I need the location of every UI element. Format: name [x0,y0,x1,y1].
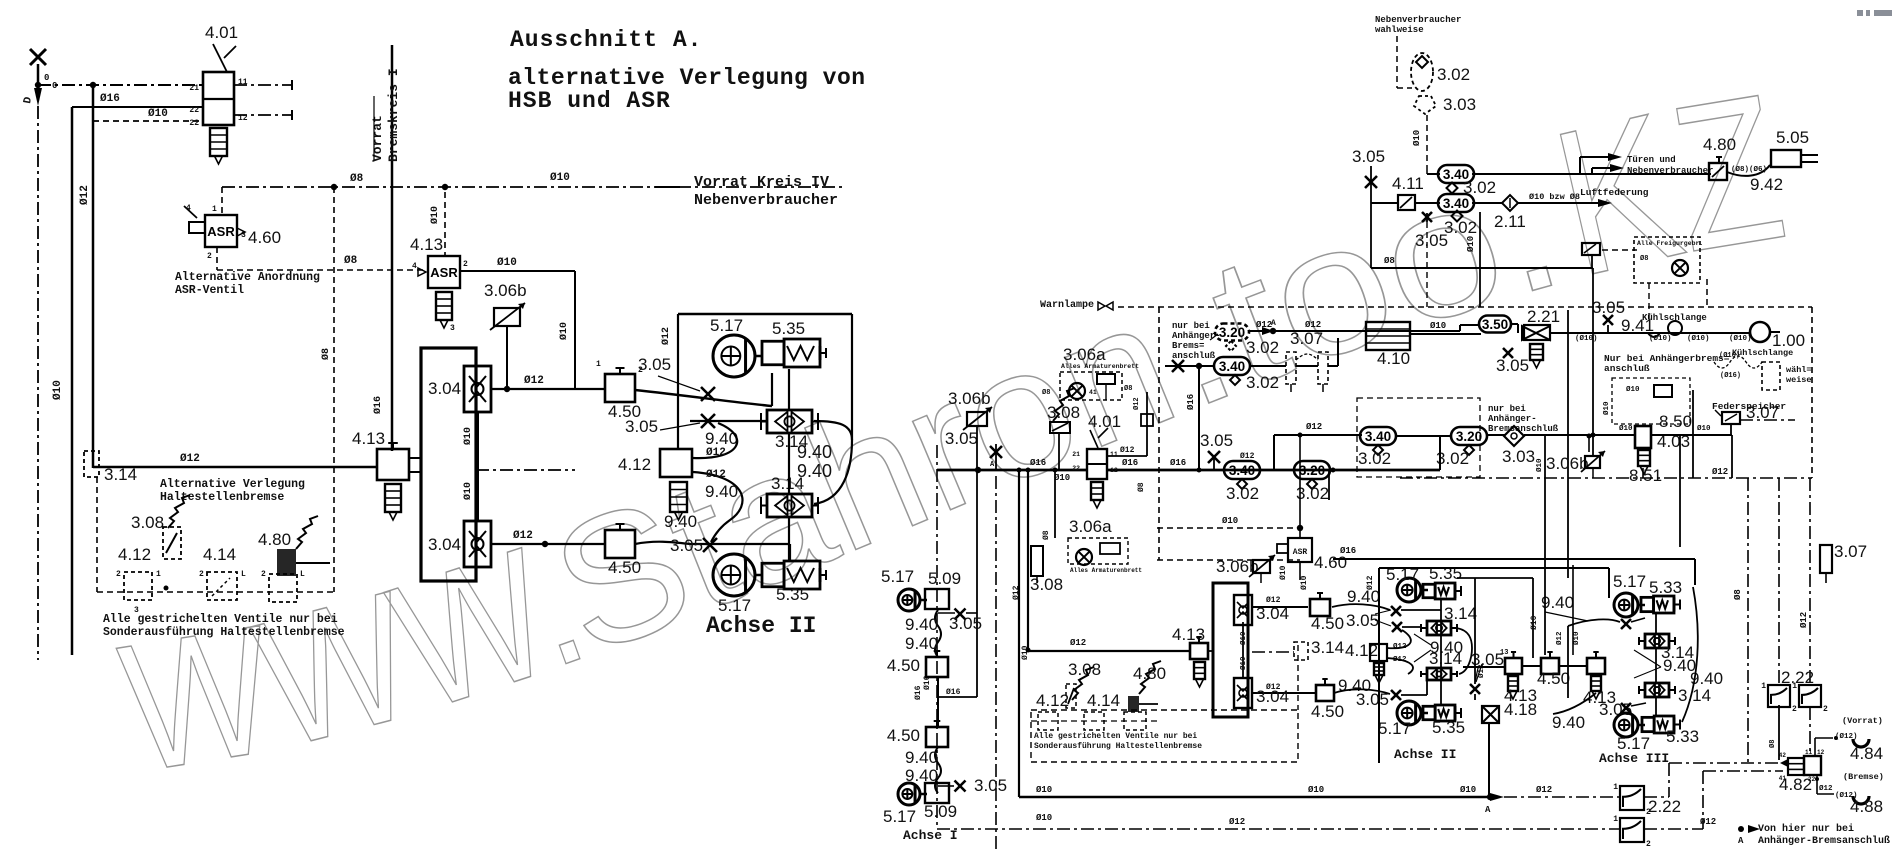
svg-text:4.13: 4.13 [410,235,443,254]
svg-text:ASR-Ventil: ASR-Ventil [175,284,244,297]
svg-text:Bremskreis I: Bremskreis I [386,68,401,162]
svg-text:3.07: 3.07 [1290,329,1323,348]
svg-text:Ø12: Ø12 [1366,575,1375,590]
svg-text:Ø10: Ø10 [497,257,517,269]
svg-text:Haltestellenbremse: Haltestellenbremse [160,491,284,504]
svg-text:Warnlampe: Warnlampe [1040,299,1094,311]
svg-text:Ø12: Ø12 [513,530,533,542]
svg-text:5.17: 5.17 [883,807,916,826]
svg-text:Alle gestrichelten Ventile nur: Alle gestrichelten Ventile nur bei [1034,732,1197,741]
svg-text:4.50: 4.50 [887,656,920,675]
svg-text:Anhänger-: Anhänger- [1172,331,1221,341]
svg-text:3.05: 3.05 [974,776,1007,795]
svg-text:3.20: 3.20 [1456,429,1482,444]
svg-text:4.80: 4.80 [258,530,291,549]
svg-text:4.50: 4.50 [887,726,920,745]
svg-text:Ø8: Ø8 [320,348,332,360]
svg-text:Ø12: Ø12 [180,453,200,465]
svg-text:13: 13 [1500,649,1508,657]
svg-text:3.06a: 3.06a [1069,517,1112,536]
svg-text:9.40: 9.40 [905,634,938,653]
svg-text:41: 41 [1779,775,1787,782]
svg-text:4.80: 4.80 [1133,664,1166,683]
svg-text:L: L [241,570,246,579]
svg-text:Ø8: Ø8 [1733,589,1743,600]
svg-text:5.33: 5.33 [1649,578,1682,597]
svg-text:3.05: 3.05 [1415,231,1448,250]
svg-text:22: 22 [189,106,199,115]
svg-text:9.40: 9.40 [705,482,738,501]
svg-text:9.42: 9.42 [1750,175,1783,194]
svg-text:5.17: 5.17 [881,567,914,586]
svg-text:4.50: 4.50 [608,558,641,577]
svg-text:2: 2 [1646,840,1651,849]
svg-text:5.17: 5.17 [1613,572,1646,591]
svg-text:1: 1 [156,570,161,579]
svg-text:2: 2 [199,570,204,579]
svg-text:A: A [1738,836,1744,846]
svg-text:1: 1 [1613,815,1618,824]
svg-text:Ø16: Ø16 [914,685,923,700]
svg-text:3.40: 3.40 [1229,463,1255,478]
svg-text:Achse III: Achse III [1599,751,1669,766]
svg-text:Ø10: Ø10 [462,427,474,445]
svg-text:3: 3 [450,324,455,333]
svg-text:4.50: 4.50 [1311,702,1344,721]
svg-text:2.11: 2.11 [1494,212,1526,231]
svg-text:Ø8: Ø8 [344,255,358,267]
svg-text:Ø12: Ø12 [1266,596,1281,605]
svg-text:Ø16: Ø16 [1030,458,1046,468]
svg-text:Ø10: Ø10 [1412,130,1422,146]
svg-text:ASR: ASR [1293,548,1308,557]
svg-text:4.11: 4.11 [1392,174,1424,193]
svg-text:3.14: 3.14 [1678,686,1711,705]
svg-text:Ø10: Ø10 [1308,785,1324,795]
svg-text:9.40: 9.40 [1552,713,1585,732]
svg-text:3.06a: 3.06a [1063,345,1106,364]
svg-text:Ø10: Ø10 [1036,813,1052,823]
svg-text:9.40: 9.40 [797,442,832,462]
svg-text:8.50: 8.50 [1659,412,1692,431]
svg-text:Achse II: Achse II [706,613,816,639]
svg-text:Alternative Anordnung: Alternative Anordnung [175,271,320,284]
svg-text:(Bremse): (Bremse) [1843,772,1884,782]
svg-text:Ø10: Ø10 [1430,321,1446,331]
svg-text:Ø12: Ø12 [1070,638,1086,648]
svg-text:Ø10: Ø10 [52,380,64,400]
svg-text:3.02: 3.02 [1437,65,1470,84]
svg-text:5.35: 5.35 [776,585,809,604]
svg-text:2: 2 [1823,705,1828,714]
svg-text:3.05: 3.05 [1496,356,1529,375]
svg-text:Achse II: Achse II [1394,747,1456,762]
svg-text:L: L [300,570,305,579]
svg-text:4.01: 4.01 [1088,412,1121,431]
svg-text:(Ø10): (Ø10) [1729,334,1752,343]
svg-text:3.03: 3.03 [1443,95,1476,114]
svg-text:3.05: 3.05 [949,614,982,633]
svg-text:Ø10: Ø10 [148,108,168,120]
svg-text:5.35: 5.35 [1432,718,1465,737]
svg-text:Ø8: Ø8 [1042,530,1051,540]
svg-text:4: 4 [186,204,191,213]
svg-text:A: A [1271,319,1276,328]
svg-text:3.04: 3.04 [1256,687,1289,706]
svg-text:11: 11 [1805,749,1813,756]
svg-text:Ø10: Ø10 [1530,615,1539,630]
svg-text:Ø16: Ø16 [946,688,961,697]
svg-text:4.14: 4.14 [1087,691,1120,710]
svg-text:Ø12: Ø12 [1799,612,1809,628]
svg-text:Ø16: Ø16 [100,93,120,105]
svg-text:4.60: 4.60 [248,228,281,247]
svg-text:Achse I: Achse I [903,828,958,843]
svg-text:3.14: 3.14 [1444,604,1477,623]
svg-text:Ø10: Ø10 [1239,631,1248,645]
svg-text:4.80: 4.80 [1703,135,1736,154]
svg-text:Ø8: Ø8 [1042,388,1050,397]
svg-text:9.40: 9.40 [1347,587,1380,606]
svg-text:Ø8: Ø8 [350,173,364,185]
svg-text:Ø16: Ø16 [1186,394,1196,410]
svg-text:12: 12 [1817,749,1825,756]
svg-text:Ø12: Ø12 [1536,785,1552,795]
svg-text:3.02: 3.02 [1296,484,1329,503]
svg-text:Anhänger-Bremsanschluß: Anhänger-Bremsanschluß [1758,835,1890,847]
svg-text:(Ø8)(Ø6): (Ø8)(Ø6) [1731,165,1767,174]
svg-text:3.08: 3.08 [131,513,164,532]
svg-text:1: 1 [596,360,601,369]
svg-text:Ø12: Ø12 [1712,467,1728,477]
svg-text:1: 1 [1613,783,1618,792]
svg-text:3.40: 3.40 [1219,359,1245,374]
svg-text:9.40: 9.40 [1541,593,1574,612]
svg-text:anschluß: anschluß [1604,363,1650,374]
svg-text:ASR: ASR [430,265,458,280]
svg-text:Vorrat Kreis IV: Vorrat Kreis IV [694,174,829,191]
svg-text:3.14: 3.14 [1311,638,1344,657]
svg-text:Kühlschlange: Kühlschlange [1732,348,1793,358]
svg-text:2.21: 2.21 [1527,307,1560,326]
svg-text:4.13: 4.13 [1172,625,1205,644]
svg-text:Alle gestrichelten Ventile nur: Alle gestrichelten Ventile nur bei [103,613,338,626]
svg-text:Nebenverbraucher: Nebenverbraucher [1375,15,1461,25]
svg-text:3.05: 3.05 [1200,431,1233,450]
svg-text:Sonderausführung Haltestellenb: Sonderausführung Haltestellenbremse [103,626,345,639]
svg-text:Ø10: Ø10 [429,206,441,224]
svg-text:Türen und: Türen und [1627,155,1676,165]
svg-text:nur bei: nur bei [1488,404,1526,414]
svg-text:41: 41 [1089,389,1097,396]
svg-text:3.05: 3.05 [1346,611,1379,630]
svg-text:5.33: 5.33 [1666,727,1699,746]
svg-text:Ø10: Ø10 [1697,424,1711,433]
svg-text:3.04: 3.04 [428,535,461,554]
svg-text:Luftfederung: Luftfederung [1580,187,1649,198]
svg-text:4.10: 4.10 [1377,349,1410,368]
svg-text:Ø10: Ø10 [1036,785,1052,795]
svg-text:Nebenverbraucher: Nebenverbraucher [694,192,838,209]
svg-text:3.06b: 3.06b [948,389,991,408]
svg-text:(Ø10): (Ø10) [1687,334,1710,343]
svg-text:Ø12: Ø12 [1700,817,1716,827]
svg-text:5.35: 5.35 [1429,564,1462,583]
svg-text:Alle Freigurgebr.: Alle Freigurgebr. [1637,240,1703,247]
svg-text:4.12: 4.12 [618,455,651,474]
svg-text:Ø8: Ø8 [1640,254,1648,263]
svg-text:Ø10: Ø10 [1466,236,1476,252]
svg-text:3.02: 3.02 [1444,218,1477,237]
svg-text:Ø12: Ø12 [1012,585,1021,600]
svg-text:Von hier nur bei: Von hier nur bei [1758,823,1854,835]
svg-text:0: 0 [44,73,49,83]
svg-text:Ø10: Ø10 [1460,785,1476,795]
svg-text:Vorrat: Vorrat [370,115,385,162]
svg-text:1: 1 [1761,682,1766,691]
svg-text:2: 2 [207,252,212,261]
svg-text:A: A [1485,805,1491,815]
svg-text:Ø16: Ø16 [1170,458,1186,468]
svg-text:4.50: 4.50 [1537,669,1570,688]
svg-text:Ausschnitt A.: Ausschnitt A. [510,27,702,53]
svg-text:3.02: 3.02 [1463,178,1496,197]
svg-text:4.12: 4.12 [118,545,151,564]
svg-text:5.17: 5.17 [710,316,743,335]
svg-text:4: 4 [412,262,417,271]
svg-text:42: 42 [1779,752,1787,759]
svg-text:11: 11 [1110,451,1118,458]
svg-text:9.40: 9.40 [664,512,697,531]
svg-text:Ø12: Ø12 [706,469,726,481]
svg-text:Ø8: Ø8 [1768,740,1777,748]
svg-text:weise: weise [1786,375,1812,385]
svg-text:3.05: 3.05 [638,355,671,374]
svg-text:3.05: 3.05 [1356,690,1389,709]
svg-text:wähl=: wähl= [1786,365,1812,375]
svg-text:wahlweise: wahlweise [1375,25,1424,35]
svg-text:4.50: 4.50 [1311,614,1344,633]
svg-text:3.04: 3.04 [428,379,461,398]
svg-text:Ø16: Ø16 [1340,546,1356,556]
svg-text:22: 22 [1808,776,1816,783]
svg-text:Ø10: Ø10 [1300,575,1309,590]
svg-text:Brems=: Brems= [1172,341,1204,351]
svg-text:Ø10 bzw Ø8: Ø10 bzw Ø8 [1529,192,1580,202]
svg-text:5.35: 5.35 [772,319,805,338]
svg-text:3.40: 3.40 [1365,429,1391,444]
svg-text:(Vorrat): (Vorrat) [1842,716,1883,726]
svg-text:2: 2 [116,570,121,579]
svg-text:Ø12: Ø12 [1120,446,1135,455]
svg-text:2: 2 [261,570,266,579]
svg-text:Alles Armaturenbrett: Alles Armaturenbrett [1070,567,1142,574]
svg-text:Ø12: Ø12 [1555,631,1564,645]
svg-text:Ø10: Ø10 [1619,424,1633,433]
svg-text:4.12: 4.12 [1036,691,1069,710]
svg-text:Ø12: Ø12 [1229,817,1245,827]
svg-text:5.09: 5.09 [924,802,957,821]
svg-text:9.40: 9.40 [797,461,832,481]
svg-text:4.18: 4.18 [1504,700,1537,719]
svg-text:3.05: 3.05 [1352,147,1385,166]
svg-text:Ø10: Ø10 [462,482,474,500]
svg-text:Ø12: Ø12 [1819,784,1833,793]
svg-text:3.02: 3.02 [1246,338,1279,357]
svg-text:3.02: 3.02 [1246,373,1279,392]
svg-text:Sonderausführung Haltestellenb: Sonderausführung Haltestellenbremse [1034,742,1202,751]
svg-text:3.14: 3.14 [104,465,137,484]
svg-text:9.40: 9.40 [905,615,938,634]
svg-text:Alles Armaturenbrett: Alles Armaturenbrett [1061,363,1139,370]
svg-text:Bremsanschluß: Bremsanschluß [1488,424,1559,434]
svg-text:3.20: 3.20 [1299,463,1325,478]
svg-text:Ø12: Ø12 [1132,397,1141,410]
svg-text:Ø8: Ø8 [1124,384,1132,393]
svg-text:Ø16: Ø16 [1122,458,1138,468]
svg-text:12: 12 [1110,467,1118,474]
svg-text:Ø10: Ø10 [1054,473,1070,483]
svg-text:Alternative Verlegung: Alternative Verlegung [160,478,305,491]
svg-text:Ø12: Ø12 [1240,452,1255,461]
svg-text:Ø10: Ø10 [1602,401,1611,415]
svg-text:3.02: 3.02 [1226,484,1259,503]
svg-text:Ø10: Ø10 [1222,516,1238,526]
svg-text:8.51: 8.51 [1629,466,1662,485]
svg-text:Ø16: Ø16 [372,396,384,414]
svg-text:22: 22 [189,119,199,128]
svg-text:5.05: 5.05 [1776,128,1809,147]
svg-text:Ø12: Ø12 [660,327,672,345]
svg-text:Ø10: Ø10 [550,172,570,184]
svg-text:2.22: 2.22 [1648,797,1681,816]
svg-text:5.17: 5.17 [1378,719,1411,738]
svg-text:(Ø10): (Ø10) [1649,334,1672,343]
svg-text:HSB und ASR: HSB und ASR [508,88,671,114]
svg-text:3.50: 3.50 [1482,317,1508,332]
svg-text:21: 21 [189,84,199,93]
svg-text:1: 1 [212,205,217,214]
svg-text:3.06b: 3.06b [484,281,527,300]
svg-text:3.08: 3.08 [1047,403,1080,422]
svg-text:3.05: 3.05 [1592,298,1625,317]
svg-text:Ø12: Ø12 [706,447,726,459]
svg-text:3.03: 3.03 [1502,447,1535,466]
svg-text:nur bei: nur bei [1172,321,1210,331]
svg-text:4.13: 4.13 [352,429,385,448]
svg-text:3.40: 3.40 [1443,196,1469,211]
svg-text:Ø12: Ø12 [79,185,91,205]
svg-text:Ø8: Ø8 [1137,482,1146,492]
svg-text:4.88: 4.88 [1850,797,1883,816]
svg-text:3.02: 3.02 [1358,449,1391,468]
svg-text:Ø10: Ø10 [1239,656,1248,670]
svg-text:5.09: 5.09 [928,569,961,588]
svg-text:4.84: 4.84 [1850,744,1883,763]
svg-text:3.07: 3.07 [1746,403,1779,422]
svg-text:4.14: 4.14 [203,545,236,564]
svg-text:(Ø10): (Ø10) [1575,334,1598,343]
svg-text:Anhänger-: Anhänger- [1488,414,1537,424]
svg-text:3.05: 3.05 [945,429,978,448]
svg-text:Ø10: Ø10 [558,322,570,340]
svg-text:9.40: 9.40 [905,748,938,767]
svg-text:Ø10: Ø10 [1279,565,1288,580]
svg-text:Ø8: Ø8 [1384,256,1395,266]
svg-text:Ø10: Ø10 [1535,458,1544,472]
svg-text:Ø12: Ø12 [524,375,544,387]
svg-text:Ø12: Ø12 [1306,422,1322,432]
svg-text:2: 2 [463,260,468,269]
svg-text:anschluß: anschluß [1172,351,1216,361]
svg-text:ASR: ASR [207,224,235,239]
svg-text:4.01: 4.01 [205,23,238,42]
svg-text:21: 21 [1072,451,1080,458]
svg-text:3.05: 3.05 [670,536,703,555]
svg-text:3.05: 3.05 [625,417,658,436]
svg-text:22: 22 [1072,465,1080,472]
svg-text:1: 1 [1792,682,1797,691]
svg-text:3.07: 3.07 [1834,542,1867,561]
svg-text:9.40: 9.40 [1430,638,1463,657]
svg-text:(Ø16): (Ø16) [1720,371,1741,380]
svg-text:3.20: 3.20 [1219,325,1245,340]
svg-text:2: 2 [1792,705,1797,714]
svg-text:3.08: 3.08 [1030,575,1063,594]
svg-text:Ø10: Ø10 [1626,385,1640,394]
